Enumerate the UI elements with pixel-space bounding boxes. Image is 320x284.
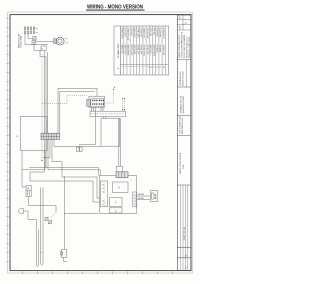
notes cell (179, 60, 187, 88)
svg-text:4: 4 (130, 66, 132, 67)
title block top tiny texts (178, 16, 187, 29)
svg-text:7: 7 (140, 66, 142, 67)
title block outline (177, 15, 191, 271)
stub wires P1 to duct (92, 107, 104, 111)
bottom connector (61, 249, 67, 261)
svg-text:10: 10 (149, 66, 151, 68)
svg-text:MOTOR FEED: MOTOR FEED (130, 45, 132, 56)
svg-text:WHITE 16/0.2: WHITE 16/0.2 (136, 28, 138, 38)
title block divider (177, 115, 191, 117)
fuse F1 (33, 36, 36, 39)
title block divider (177, 135, 191, 137)
svg-text:MAINS NEUT: MAINS NEUT (124, 45, 127, 55)
svg-text:DRAWN P.JONES DATE 12.05.97: DRAWN P.JONES DATE 12.05.97 (178, 34, 181, 58)
svg-text:SWITCH FEED: SWITCH FEED (143, 45, 145, 57)
plinth box (101, 118, 120, 146)
P1 pins (92, 100, 104, 105)
wire W_E (43, 139, 50, 157)
number grid columns (181, 185, 188, 270)
dashed actuator link (51, 213, 56, 218)
svg-text:a: a (131, 180, 132, 182)
screen wire (dashed) (41, 54, 43, 103)
wire (47, 52, 49, 133)
wire below switch (34, 45, 41, 51)
title block divider (177, 59, 191, 61)
svg-text:SPEAKER +: SPEAKER + (156, 45, 159, 54)
cable table rotated texts (120, 28, 164, 68)
wire to fuse (28, 34, 33, 39)
cable table column lines (124, 26, 166, 75)
border frame (8, 12, 193, 273)
wire from chassis to P-box (22, 151, 26, 188)
svg-text:MAINS EARTH: MAINS EARTH (127, 45, 130, 57)
svg-text:ORANGE 7/0.2: ORANGE 7/0.2 (143, 28, 146, 39)
wire to amp left pin 2 (30, 139, 100, 202)
wire plug to hairpin2 (23, 211, 36, 219)
svg-text:PROJECTION USED: PROJECTION USED (182, 70, 184, 86)
cable spec header strip (117, 26, 121, 75)
svg-text:SIGNAL RET: SIGNAL RET (140, 45, 143, 54)
material cell (178, 116, 184, 134)
motor connector (54, 39, 57, 44)
wire to amp strip upper (29, 139, 46, 167)
dashed drop arrows into duct (122, 98, 125, 111)
P1 side connector (87, 99, 91, 106)
svg-text:2: 2 (115, 210, 117, 213)
grid cell texts (184, 254, 187, 268)
svg-text:THIRD ANGLE PROJ: THIRD ANGLE PROJ (179, 71, 182, 86)
svg-text:DATE: DATE (178, 26, 181, 30)
frame tick marks left edge (6, 19, 8, 262)
microswitch pair (45, 217, 53, 225)
grid dividers (177, 247, 191, 257)
svg-text:BLUE 16/0.2: BLUE 16/0.2 (124, 28, 126, 37)
svg-text:PINK 7/0.2: PINK 7/0.2 (152, 28, 154, 36)
svg-text:MOTOR RET: MOTOR RET (133, 45, 135, 55)
motor pin labels (65, 39, 68, 45)
junction dot (64, 176, 65, 177)
svg-text:FL: FL (42, 49, 44, 51)
svg-text:DIMENSIONS IN MM TOL 0.5: DIMENSIONS IN MM TOL 0.5 (186, 37, 188, 58)
box T (110, 198, 123, 207)
svg-text:SHEET 1 OF 1 A3: SHEET 1 OF 1 A3 (183, 227, 186, 240)
connector block X1 (41, 133, 60, 139)
speaker box (150, 191, 157, 202)
title block info texts (178, 32, 191, 58)
wire chassis bottom link (22, 151, 45, 170)
svg-text:LAMP RETURN: LAMP RETURN (152, 45, 155, 57)
wire block pin 6 jog (52, 139, 62, 161)
svg-text:SWITCH RET: SWITCH RET (146, 45, 148, 55)
hairpin loop 1 (41, 188, 44, 266)
title block divider (177, 86, 191, 88)
svg-text:BROWN: BROWN (138, 198, 144, 200)
wire jog to down-bundle (40, 50, 46, 56)
amp right connector (133, 192, 137, 207)
drawing title (86, 5, 145, 11)
svg-text:WIRING - MONO VERSION: WIRING - MONO VERSION (180, 152, 182, 174)
wire switch to motor (36, 41, 54, 43)
wire across to amp corner (46, 167, 99, 175)
svg-text:GREY 7/0.2: GREY 7/0.2 (149, 28, 151, 37)
wire W_F across (54, 139, 101, 146)
screen wire continues (dashed) (41, 103, 43, 159)
svg-text:MONO WIRING LOOM: MONO WIRING LOOM (182, 117, 184, 134)
svg-text:12: 12 (156, 66, 158, 68)
svg-text:MAINS LIVE: MAINS LIVE (120, 45, 123, 54)
svg-text:SPEAKER -: SPEAKER - (159, 45, 162, 54)
pilot lamp P (26, 185, 31, 190)
connector pin row 2 (24, 30, 37, 33)
svg-text:05: 05 (185, 267, 187, 269)
svg-text:T: T (115, 202, 117, 205)
tiny inline connector pair (77, 146, 83, 152)
svg-text:TURNTABLE MFG LTD: TURNTABLE MFG LTD (179, 95, 182, 113)
amp left connector (100, 181, 107, 207)
svg-text:37 05: 37 05 (183, 165, 185, 169)
wire bundle down from mains (44, 50, 46, 133)
amp top connector strip (116, 172, 128, 178)
PCB connector P1 inner (91, 99, 104, 106)
wire to speaker + label (137, 194, 151, 196)
svg-text:BROWN 16/0.2: BROWN 16/0.2 (120, 28, 122, 39)
svg-text:VIOLET 7/0.2: VIOLET 7/0.2 (140, 28, 142, 38)
svg-text:8: 8 (143, 66, 145, 67)
svg-text:5: 5 (133, 66, 135, 67)
svg-text:a: a (41, 252, 42, 254)
svg-text:YELLOW 7/0.2: YELLOW 7/0.2 (146, 28, 148, 39)
svg-text:11: 11 (152, 66, 154, 68)
svg-text:SIGNAL LIVE: SIGNAL LIVE (136, 45, 139, 55)
stub wires duct to plinth box (104, 117, 106, 119)
svg-text:RED/WH: RED/WH (138, 194, 144, 196)
cable spec table frame (114, 26, 169, 75)
chassis outline N1 (21, 117, 48, 151)
svg-text:5: 5 (118, 187, 120, 190)
svg-text:LAMP FEED: LAMP FEED (149, 45, 152, 55)
mains input label (17, 33, 22, 48)
svg-text:A1: A1 (185, 22, 188, 24)
wire PCB down to pair line (79, 107, 96, 144)
wire to amp left pin 1 (62, 162, 100, 199)
svg-text:LONG LOOM ASSY 1205: LONG LOOM ASSY 1205 (178, 116, 181, 134)
svg-text:6: 6 (136, 66, 138, 67)
svg-text:3: 3 (127, 66, 129, 67)
svg-text:9: 9 (146, 66, 148, 67)
svg-text:GREEN/YELLOW: GREEN/YELLOW (127, 28, 129, 41)
box 2 (110, 208, 123, 213)
svg-text:2: 2 (124, 66, 126, 67)
svg-text:3 CORE 0.75MM: 3 CORE 0.75MM (21, 35, 23, 48)
wire pair down plinth right (116, 118, 122, 172)
svg-text:A: A (117, 67, 120, 69)
svg-text:4: 4 (67, 43, 68, 45)
svg-text:GLASGOW SCOTLAND: GLASGOW SCOTLAND (182, 95, 185, 113)
svg-text:1: 1 (67, 39, 68, 41)
svg-text:A3: A3 (184, 254, 187, 256)
terminal block TB1 (41, 46, 46, 51)
svg-text:1: 1 (120, 66, 122, 67)
lamp holder (26, 190, 31, 196)
wire L-run to PCB (58, 88, 97, 133)
wire to speaker + label (137, 198, 151, 200)
amp unit outline (100, 176, 137, 214)
branch to amp bottom (64, 212, 98, 214)
svg-text:A CABLE SPEC: A CABLE SPEC (117, 43, 120, 58)
svg-text:RED 16/0.2: RED 16/0.2 (130, 28, 132, 36)
svg-text:14: 14 (162, 66, 164, 68)
frame tick marks bottom edge (23, 271, 173, 274)
connector pin row 1 (24, 26, 37, 29)
screen link (dashed) (42, 95, 87, 103)
mains plug symbol (18, 208, 23, 213)
wire to bottom connector (63, 177, 65, 249)
arrow up with dot (113, 87, 115, 90)
dashed link from P1 to arrow (105, 90, 114, 103)
svg-text:13: 13 (159, 66, 161, 68)
title block divider (177, 184, 191, 186)
svg-text:SCREEN LINK: SCREEN LINK (162, 45, 164, 57)
title block top rows (177, 15, 191, 30)
motor M1 (56, 37, 64, 45)
svg-text:P: P (28, 187, 30, 190)
company cell (179, 95, 185, 113)
svg-text:RED/WHITE: RED/WHITE (156, 28, 158, 37)
wire from mains pins (25, 34, 48, 45)
wire to amp strip lower (48, 139, 100, 175)
drawing title cell (180, 152, 185, 174)
switch S1 on mains wire (32, 41, 36, 45)
svg-text:MAINS INPUT 230V: MAINS INPUT 230V (17, 33, 20, 48)
wire L-run to PCB (60, 92, 95, 134)
hairpin loop 2 (37, 219, 39, 266)
screen junction dot (41, 160, 42, 161)
svg-text:BLUE/WHITE: BLUE/WHITE (159, 28, 161, 38)
PCB connector P1 outer (89, 96, 105, 107)
wire (45, 57, 47, 133)
svg-text:BLACK 16/0.2: BLACK 16/0.2 (133, 28, 136, 38)
wire from holder (29, 197, 57, 213)
svg-text:REV: REV (179, 16, 181, 19)
svg-text:SCREENED 1C: SCREENED 1C (162, 28, 164, 40)
cable table number row divider (121, 63, 169, 65)
svg-text:N: N (16, 136, 18, 138)
transformer box 5 (113, 182, 129, 193)
cable duct (90, 111, 126, 116)
